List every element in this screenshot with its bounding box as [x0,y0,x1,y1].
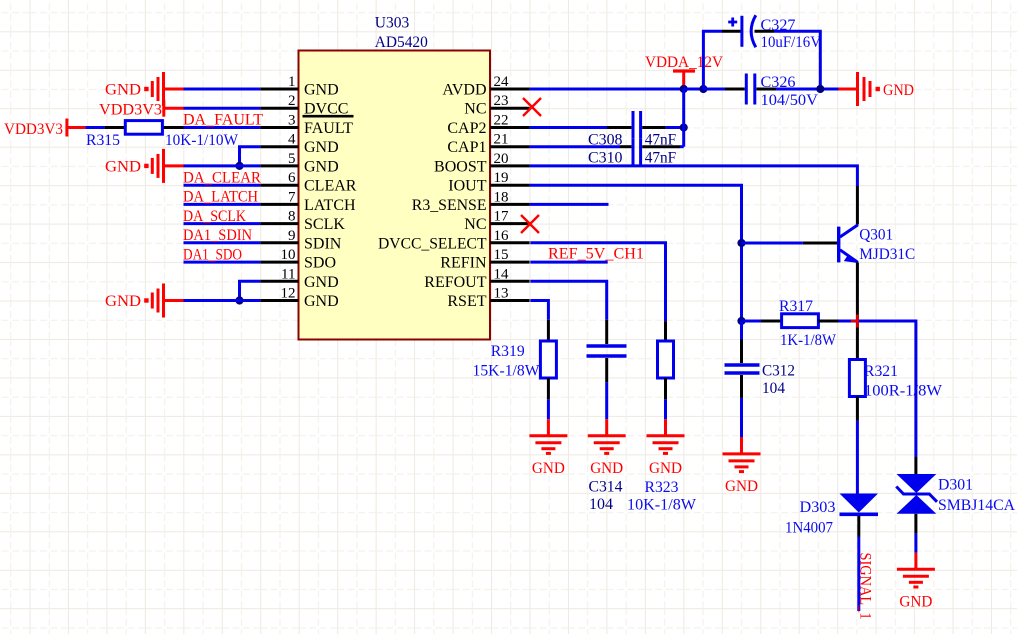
power port VDD3V3 (left of R315) [4,119,85,139]
wire GND to pin 1 [184,88,261,91]
svg-text:MJD31C: MJD31C [859,246,915,263]
junction IOUT / R317 / C312 [737,317,745,325]
svg-text:VDD3V3: VDD3V3 [99,102,162,119]
wire REFIN pin15 stub [530,261,607,264]
power port GND (right of C326) [839,72,915,106]
U303 pin 1 (GND) [260,74,338,99]
wire C310 right to riser corner [680,145,684,148]
svg-text:GND: GND [725,478,758,495]
svg-text:5: 5 [288,151,296,167]
svg-text:10K-1/8W: 10K-1/8W [627,497,697,514]
svg-text:17: 17 [494,209,510,225]
svg-text:GND: GND [304,158,339,175]
wire DA_SCLK to pin 8 [184,222,261,225]
wire VDD3V3 to R315 [85,126,104,129]
svg-text:SCLK: SCLK [304,216,345,233]
U303 pin 20 (BOOST) [434,151,530,176]
junction marker red cross [851,315,864,328]
wire R319 to ground [547,399,550,419]
svg-text:1N4007: 1N4007 [785,520,833,537]
U303 pin 13 (RSET) [447,286,529,311]
U303 pin 14 (REFOUT) [424,266,529,291]
svg-text:104/50V: 104/50V [761,92,819,109]
svg-text:R315: R315 [86,132,120,149]
svg-text:DA_SCLK: DA_SCLK [183,208,246,225]
svg-text:GND: GND [304,139,339,156]
capacitor C308 [607,111,666,139]
svg-text:12: 12 [281,286,296,302]
svg-text:GND: GND [304,274,339,291]
svg-text:CAP2: CAP2 [447,120,486,137]
svg-text:GND: GND [883,82,914,99]
wire BOOST pin20 to Q301 collector [530,166,858,186]
resistor R315 [105,121,184,135]
wire junction down to C312 [740,321,743,340]
svg-text:LATCH: LATCH [304,197,356,214]
wire AVDD pin24 to VDDA junction [530,88,684,91]
svg-text:10: 10 [281,247,296,263]
svg-text:6: 6 [288,170,296,186]
wire Q301 base [742,242,803,245]
svg-text:15K-1/8W: 15K-1/8W [473,363,541,380]
U303 pin 4 (GND) [260,132,338,157]
U303 pin 9 (SDIN) [260,228,341,253]
wire DVCC_SELECT pin16 to R323 [530,243,665,321]
svg-text:U303: U303 [375,15,410,32]
resistor R317 [742,314,839,328]
svg-text:DA_LATCH: DA_LATCH [183,189,258,206]
U303 pin 6 (CLEAR) [260,170,356,195]
svg-text:15: 15 [494,247,509,263]
U303 pin 16 (DVCC_SELECT) [378,228,530,253]
capacitor C310 [620,139,680,167]
svg-text:NC: NC [464,101,486,118]
U303 pin 17 (NC) [464,209,529,234]
svg-text:REF_5V_CH1: REF_5V_CH1 [548,246,644,263]
svg-text:1: 1 [288,74,296,90]
junction C327 tap [699,85,707,93]
wire C308 to AVDD riser [666,126,684,129]
power port GND (pin5) [105,149,184,183]
svg-text:CLEAR: CLEAR [304,178,357,195]
svg-text:BOOST: BOOST [434,158,487,175]
svg-text:D301: D301 [938,477,973,494]
svg-text:19: 19 [494,170,509,186]
power port VDDA_12V [645,54,723,89]
power port GND (pin12) [105,284,184,318]
svg-text:GND: GND [590,460,623,477]
ground below R323 [647,419,685,453]
U303 pin 12 (GND) [260,286,338,311]
svg-text:7: 7 [288,189,296,205]
svg-text:104: 104 [589,496,613,513]
svg-text:C314: C314 [589,479,623,496]
wire AVDD junction to C327 tap [684,88,704,91]
svg-text:Q301: Q301 [859,227,893,244]
U303 pin 22 (CAP2) [447,113,529,138]
diode D303 [840,494,879,537]
svg-text:GND: GND [304,82,339,99]
wire C314 to ground [605,382,608,419]
svg-text:VDDA_12V: VDDA_12V [645,54,723,71]
svg-text:GND: GND [649,460,682,477]
wire C326 to GND port [776,88,839,91]
svg-text:DA_FAULT: DA_FAULT [183,112,263,129]
svg-text:10K-1/10W: 10K-1/10W [165,132,239,149]
wire DA1_SDIN to pin 9 [184,241,261,244]
svg-text:AVDD: AVDD [442,82,486,99]
junction pins 4/5 [235,162,243,170]
svg-text:D303: D303 [800,499,836,516]
svg-text:R317: R317 [779,298,813,315]
svg-text:2: 2 [288,93,296,109]
U303 pin 8 (SCLK) [260,209,345,234]
svg-text:GND: GND [899,594,932,611]
U303 pin 10 (SDO) [260,247,336,272]
svg-text:AD5420: AD5420 [375,34,428,51]
U303 pin 24 (AVDD) [442,74,529,99]
wire VDD3V3 to pin 2 [184,107,261,110]
svg-text:R323: R323 [645,479,679,496]
svg-text:R319: R319 [491,343,525,360]
svg-text:DA1_SDO: DA1_SDO [183,246,242,263]
wire R321 to D303 [856,421,859,494]
wire R3_SENSE pin18 stub [530,203,609,206]
U303 pin 19 (IOUT) [448,170,529,195]
svg-text:C312: C312 [762,363,795,380]
wire pin 11 jog down to pin12 row [240,281,261,300]
U303 pin 5 (GND) [260,151,338,176]
svg-text:GND: GND [105,82,141,99]
wire emitter node to D301 riser [859,321,916,457]
svg-text:9: 9 [288,228,296,244]
op-amp/DAC IC U303 body [299,51,491,340]
wire IOUT pin19 down left riser [530,185,742,321]
svg-text:C310: C310 [588,150,623,167]
wire DA_CLEAR to pin 6 [184,184,261,187]
TVS diode D301 [896,457,937,533]
U303 pin 2 (DVCC) [260,93,348,118]
resistor R321 [849,360,865,421]
svg-text:CAP1: CAP1 [447,139,486,156]
wire RSET pin13 to R319 [530,301,548,320]
wire REFOUT pin14 to C314 [530,281,606,320]
svg-text:10uF/16V: 10uF/16V [761,34,822,51]
ground below R319 [529,419,567,453]
svg-text:11: 11 [281,266,295,282]
svg-text:18: 18 [494,189,509,205]
wire CAP2 pin22 to C308 [530,126,607,129]
svg-text:47nF: 47nF [645,150,677,167]
svg-text:DA1_SDIN: DA1_SDIN [183,227,252,244]
U303 pin 21 (CAP1) [447,132,529,157]
U303 pin 18 (R3_SENSE) [412,189,530,214]
svg-text:4: 4 [288,132,296,148]
wire DA1_SDO to pin 10 [184,261,261,264]
junction IOUT / Q301 base [737,239,745,247]
svg-text:FAULT: FAULT [304,120,353,137]
U303 pin 11 (GND) [260,266,338,291]
wire AVDD tap to C326 [703,88,725,91]
svg-text:RSET: RSET [447,293,486,310]
wire DA_LATCH to pin 7 [184,203,261,206]
svg-text:3: 3 [288,113,296,129]
svg-text:GND: GND [532,460,565,477]
power port VDD3V3 (pin2) [99,100,184,119]
svg-text:100R-1/8W: 100R-1/8W [864,383,943,400]
svg-text:DA_CLEAR: DA_CLEAR [183,169,261,186]
wire CAP1 pin21 to C310 [530,145,620,148]
wire DA_FAULT (R315 to pin 3) [184,126,261,129]
U303 pin 15 (REFIN) [440,247,529,272]
junction VDDA / AVDD [680,85,688,93]
junction C327 right riser / AVDD [816,85,824,93]
svg-text:13: 13 [494,286,509,302]
svg-text:16: 16 [494,228,510,244]
junction CAP2 / riser [680,123,688,131]
svg-text:SIGNAL_1: SIGNAL_1 [857,553,874,620]
wire C312 to ground [740,398,743,438]
ground below D301 [897,553,935,587]
capacitor C312 [725,340,760,398]
capacitor C314 [587,320,627,383]
svg-text:IOUT: IOUT [448,178,486,195]
wire D301 to ground [914,533,917,552]
svg-text:R321: R321 [864,363,898,380]
svg-text:SMBJ14CA: SMBJ14CA [938,497,1015,514]
ground below C314 [588,419,626,453]
svg-text:24: 24 [494,74,510,90]
no-connect X on pin 23 [523,98,541,116]
capacitor C327 (polarized) [722,15,774,47]
transistor Q301 [803,186,859,360]
svg-text:20: 20 [494,151,509,167]
svg-text:GND: GND [105,293,141,310]
wire R317 to emitter column [839,320,857,323]
svg-text:REFIN: REFIN [440,255,487,272]
svg-text:1K-1/8W: 1K-1/8W [780,332,837,349]
svg-text:SDO: SDO [304,255,336,272]
wire GND to pin 5 [184,164,261,167]
svg-text:SDIN: SDIN [304,235,342,252]
svg-text:14: 14 [494,266,510,282]
wire AVDD riser down to CAP1 row [682,89,685,147]
svg-text:DVCC_SELECT: DVCC_SELECT [378,235,487,252]
U303 pin 7 (LATCH) [260,189,356,214]
svg-text:104: 104 [762,380,785,397]
wire pin 4 jog down to pin5 row [240,147,261,166]
svg-text:21: 21 [494,132,509,148]
svg-text:VDD3V3: VDD3V3 [4,121,63,138]
capacitor C326 [725,74,776,105]
resistor R323 [658,321,674,399]
svg-text:23: 23 [494,93,509,109]
wire C327 to right riser [774,31,820,89]
power port GND (pin1) [105,72,184,106]
svg-text:GND: GND [105,158,141,175]
svg-text:REFOUT: REFOUT [424,274,486,291]
svg-text:GND: GND [304,293,339,310]
junction pins 11/12 [235,296,243,304]
ground below C312 [723,437,761,471]
resistor R319 [540,320,556,400]
wire D303 to SIGNAL_1 [857,537,860,612]
svg-text:R3_SENSE: R3_SENSE [412,197,487,214]
wire R323 to ground [664,399,667,419]
svg-text:NC: NC [464,216,486,233]
wire GND to pin 12 [184,299,261,302]
svg-text:22: 22 [494,113,509,129]
wire C327 left riser [703,31,722,89]
U303 pin 23 (NC) [464,93,529,118]
svg-text:8: 8 [288,209,296,225]
no-connect X on pin 17 [521,215,539,233]
U303 pin 3 (FAULT) [260,113,353,138]
